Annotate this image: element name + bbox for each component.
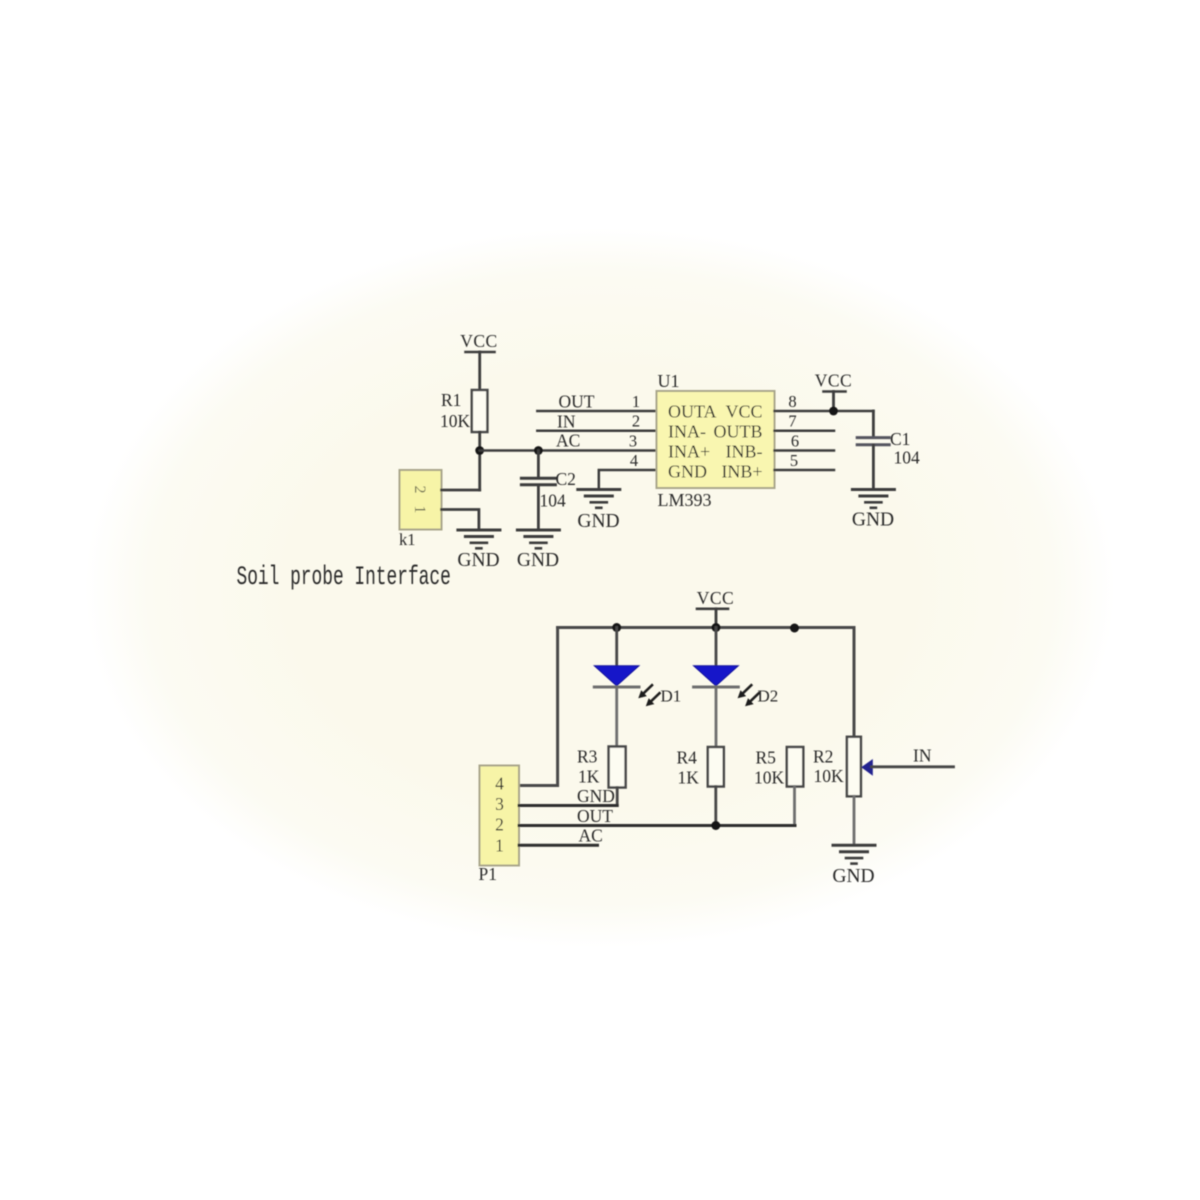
- svg-text:3: 3: [495, 794, 504, 814]
- ground (C2): [517, 530, 560, 571]
- label R2: [813, 747, 833, 767]
- wire R4 bottom to OUT line: [714, 787, 717, 826]
- svg-text:k1: k1: [399, 530, 416, 549]
- wire U1 pin5: [775, 469, 835, 472]
- pin number 3 (U1): [629, 432, 637, 451]
- capacitor C2: [521, 451, 555, 530]
- svg-text:OUT: OUT: [559, 392, 595, 412]
- svg-text:U1: U1: [658, 371, 680, 391]
- svg-text:GND: GND: [852, 510, 894, 531]
- svg-text:2: 2: [632, 412, 640, 431]
- pin number 1 (K1): [411, 506, 428, 514]
- label C2: [556, 469, 576, 489]
- wire rail left drop to P1 pin4: [519, 628, 558, 786]
- svg-text:1K: 1K: [578, 767, 600, 787]
- net label OUT: [559, 392, 595, 412]
- wire U1 pin8 to VCC/C1: [775, 410, 874, 413]
- R2 wiper arrow: [861, 759, 873, 776]
- value 104 (C1): [894, 448, 921, 468]
- junction node D1/rail: [612, 623, 621, 632]
- resistor R3: [609, 747, 626, 788]
- label LM393: [658, 490, 712, 510]
- wire P1 pin1 AC net: [519, 844, 598, 847]
- svg-text:OUT: OUT: [577, 806, 613, 826]
- value 104 (C2): [540, 491, 567, 511]
- wire R1 bottom to node: [478, 432, 481, 490]
- wire U1 pin6: [775, 449, 835, 452]
- svg-text:D1: D1: [661, 687, 682, 706]
- junction node D2/rail: [712, 623, 721, 632]
- LED D2 light arrows: [738, 685, 759, 706]
- junction node at R1/AC: [475, 446, 484, 455]
- svg-text:OUTB: OUTB: [714, 422, 763, 442]
- label R3: [577, 747, 598, 767]
- wire AC net to U1 pin3: [480, 449, 657, 452]
- svg-text:GND: GND: [577, 511, 619, 532]
- net label GND (P1 pin3): [577, 786, 615, 806]
- net label OUT (P1 pin2): [577, 806, 613, 826]
- svg-text:R1: R1: [441, 390, 461, 410]
- svg-text:VCC: VCC: [697, 588, 734, 608]
- value 1K (R3): [578, 767, 600, 787]
- wire rail right drop to R2: [853, 628, 856, 738]
- svg-text:GND: GND: [832, 866, 874, 887]
- label U1: [658, 371, 680, 391]
- svg-text:AC: AC: [579, 826, 603, 846]
- LED D1 light arrows: [638, 685, 659, 706]
- wire R2 bottom to ground: [853, 796, 856, 844]
- svg-text:5: 5: [790, 451, 798, 470]
- wire R5 bottom to OUT line: [793, 787, 796, 826]
- value 1K (R4): [678, 768, 700, 788]
- svg-text:VCC: VCC: [815, 371, 852, 391]
- title text Soil probe Interface: [237, 562, 451, 593]
- wire P1 pin2 OUT net: [519, 824, 795, 827]
- junction node R4/OUT: [711, 821, 720, 830]
- pin number 8 (U1): [788, 392, 796, 411]
- svg-text:GND: GND: [577, 786, 615, 806]
- svg-text:GND: GND: [668, 462, 707, 482]
- pin name OUTA: [668, 402, 717, 422]
- wire U1 pin7: [775, 429, 835, 432]
- wire IN to wiper: [872, 765, 954, 768]
- label k1: [399, 530, 416, 549]
- svg-text:1: 1: [632, 392, 640, 411]
- pin number 2 (U1): [632, 412, 640, 431]
- svg-text:INB+: INB+: [721, 462, 762, 482]
- wire K1 pin1 to ground: [442, 510, 479, 530]
- capacitor C1: [857, 411, 889, 489]
- label R4: [677, 748, 698, 768]
- svg-text:IN: IN: [557, 412, 576, 432]
- svg-text:AC: AC: [556, 431, 580, 451]
- svg-text:GND: GND: [457, 550, 499, 571]
- svg-text:OUTA: OUTA: [668, 402, 717, 422]
- svg-text:2: 2: [411, 486, 428, 494]
- svg-text:8: 8: [788, 392, 796, 411]
- wire R3 bottom to GND line: [616, 788, 619, 806]
- wire K1 pin2 to node: [442, 489, 480, 492]
- label D1: [661, 687, 682, 706]
- label R1: [441, 390, 461, 410]
- wire OUT to U1 pin1: [537, 410, 657, 413]
- wire P1 pin3 GND net: [519, 804, 617, 807]
- svg-text:R5: R5: [756, 748, 777, 768]
- pin number 1 (U1): [632, 392, 640, 411]
- svg-text:INA-: INA-: [668, 422, 706, 442]
- pin name OUTB: [714, 422, 763, 442]
- svg-text:10K: 10K: [440, 411, 471, 431]
- pin name INB+: [721, 462, 762, 482]
- power VCC (LED rail): [697, 588, 734, 628]
- ground (C1): [852, 490, 895, 531]
- ground (U1 pin4): [577, 490, 619, 533]
- svg-text:IN: IN: [913, 746, 932, 766]
- resistor R4: [708, 747, 724, 787]
- svg-text:104: 104: [540, 491, 567, 511]
- wire U1 pin4 to ground: [599, 470, 657, 489]
- svg-text:R2: R2: [813, 747, 833, 767]
- svg-text:3: 3: [629, 432, 637, 451]
- svg-text:C2: C2: [556, 469, 576, 489]
- label D2: [758, 687, 779, 706]
- junction node at C2: [534, 446, 543, 455]
- value 10K (R1): [440, 411, 471, 431]
- pin name INA-: [668, 422, 706, 442]
- net label AC (P1 pin1): [579, 826, 603, 846]
- pin number 7 (U1): [788, 412, 796, 431]
- label C1: [890, 429, 910, 449]
- ground (K1 pin1): [457, 530, 500, 571]
- net label IN (wiper): [913, 746, 932, 766]
- svg-text:GND: GND: [517, 550, 559, 571]
- pin name INA+: [668, 442, 710, 462]
- svg-text:1K: 1K: [678, 768, 700, 788]
- pin number 2 (P1): [495, 815, 504, 835]
- pin name INB-: [726, 442, 763, 462]
- label R5: [756, 748, 777, 768]
- net label IN: [557, 412, 576, 432]
- net label AC: [556, 431, 580, 451]
- ground (R2): [832, 845, 875, 887]
- pin name GND: [668, 462, 707, 482]
- svg-text:Soil probe Interface: Soil probe Interface: [237, 562, 451, 593]
- pin name VCC: [725, 402, 762, 422]
- pin number 5 (U1): [790, 451, 798, 470]
- power VCC (at U1 pin8): [815, 371, 852, 412]
- svg-text:INB-: INB-: [726, 442, 763, 462]
- svg-text:C1: C1: [890, 429, 910, 449]
- resistor R5: [787, 747, 804, 787]
- svg-text:INA+: INA+: [668, 442, 710, 462]
- value 10K (R5): [754, 768, 785, 788]
- svg-text:6: 6: [791, 432, 799, 451]
- pin number 1 (P1): [495, 836, 504, 856]
- junction node VCC/pin8: [829, 407, 838, 416]
- svg-text:VCC: VCC: [460, 331, 497, 351]
- LED D2: [694, 628, 739, 748]
- connector P1: [480, 766, 520, 866]
- value 10K (R2): [814, 766, 845, 786]
- op-amp U1 (LM393 comparator): [657, 391, 775, 488]
- wire IN to U1 pin2: [537, 429, 657, 432]
- pin number 4 (P1): [495, 774, 504, 794]
- pin number 2 (K1): [411, 486, 428, 494]
- svg-text:1: 1: [495, 836, 504, 856]
- wire VCC rail: [558, 626, 854, 629]
- junction node R5/rail: [790, 624, 799, 633]
- svg-text:D2: D2: [758, 687, 779, 706]
- svg-text:10K: 10K: [754, 768, 785, 788]
- pin number 3 (P1): [495, 794, 504, 814]
- svg-text:LM393: LM393: [658, 490, 712, 510]
- svg-text:4: 4: [495, 774, 504, 794]
- resistor R1: [472, 390, 488, 432]
- power VCC (above R1): [460, 331, 497, 390]
- connector K1: [400, 470, 442, 530]
- svg-text:R4: R4: [677, 748, 698, 768]
- svg-text:1: 1: [411, 506, 428, 514]
- potentiometer R2: [847, 737, 861, 797]
- pin number 4 (U1): [630, 451, 638, 470]
- label P1: [479, 864, 497, 884]
- svg-text:7: 7: [788, 412, 796, 431]
- svg-text:VCC: VCC: [725, 402, 762, 422]
- svg-text:2: 2: [495, 815, 504, 835]
- svg-text:P1: P1: [479, 864, 497, 884]
- svg-text:10K: 10K: [814, 766, 845, 786]
- LED D1: [594, 628, 639, 747]
- svg-text:4: 4: [630, 451, 638, 470]
- svg-text:104: 104: [894, 448, 921, 468]
- svg-text:R3: R3: [577, 747, 598, 767]
- pin number 6 (U1): [791, 432, 799, 451]
